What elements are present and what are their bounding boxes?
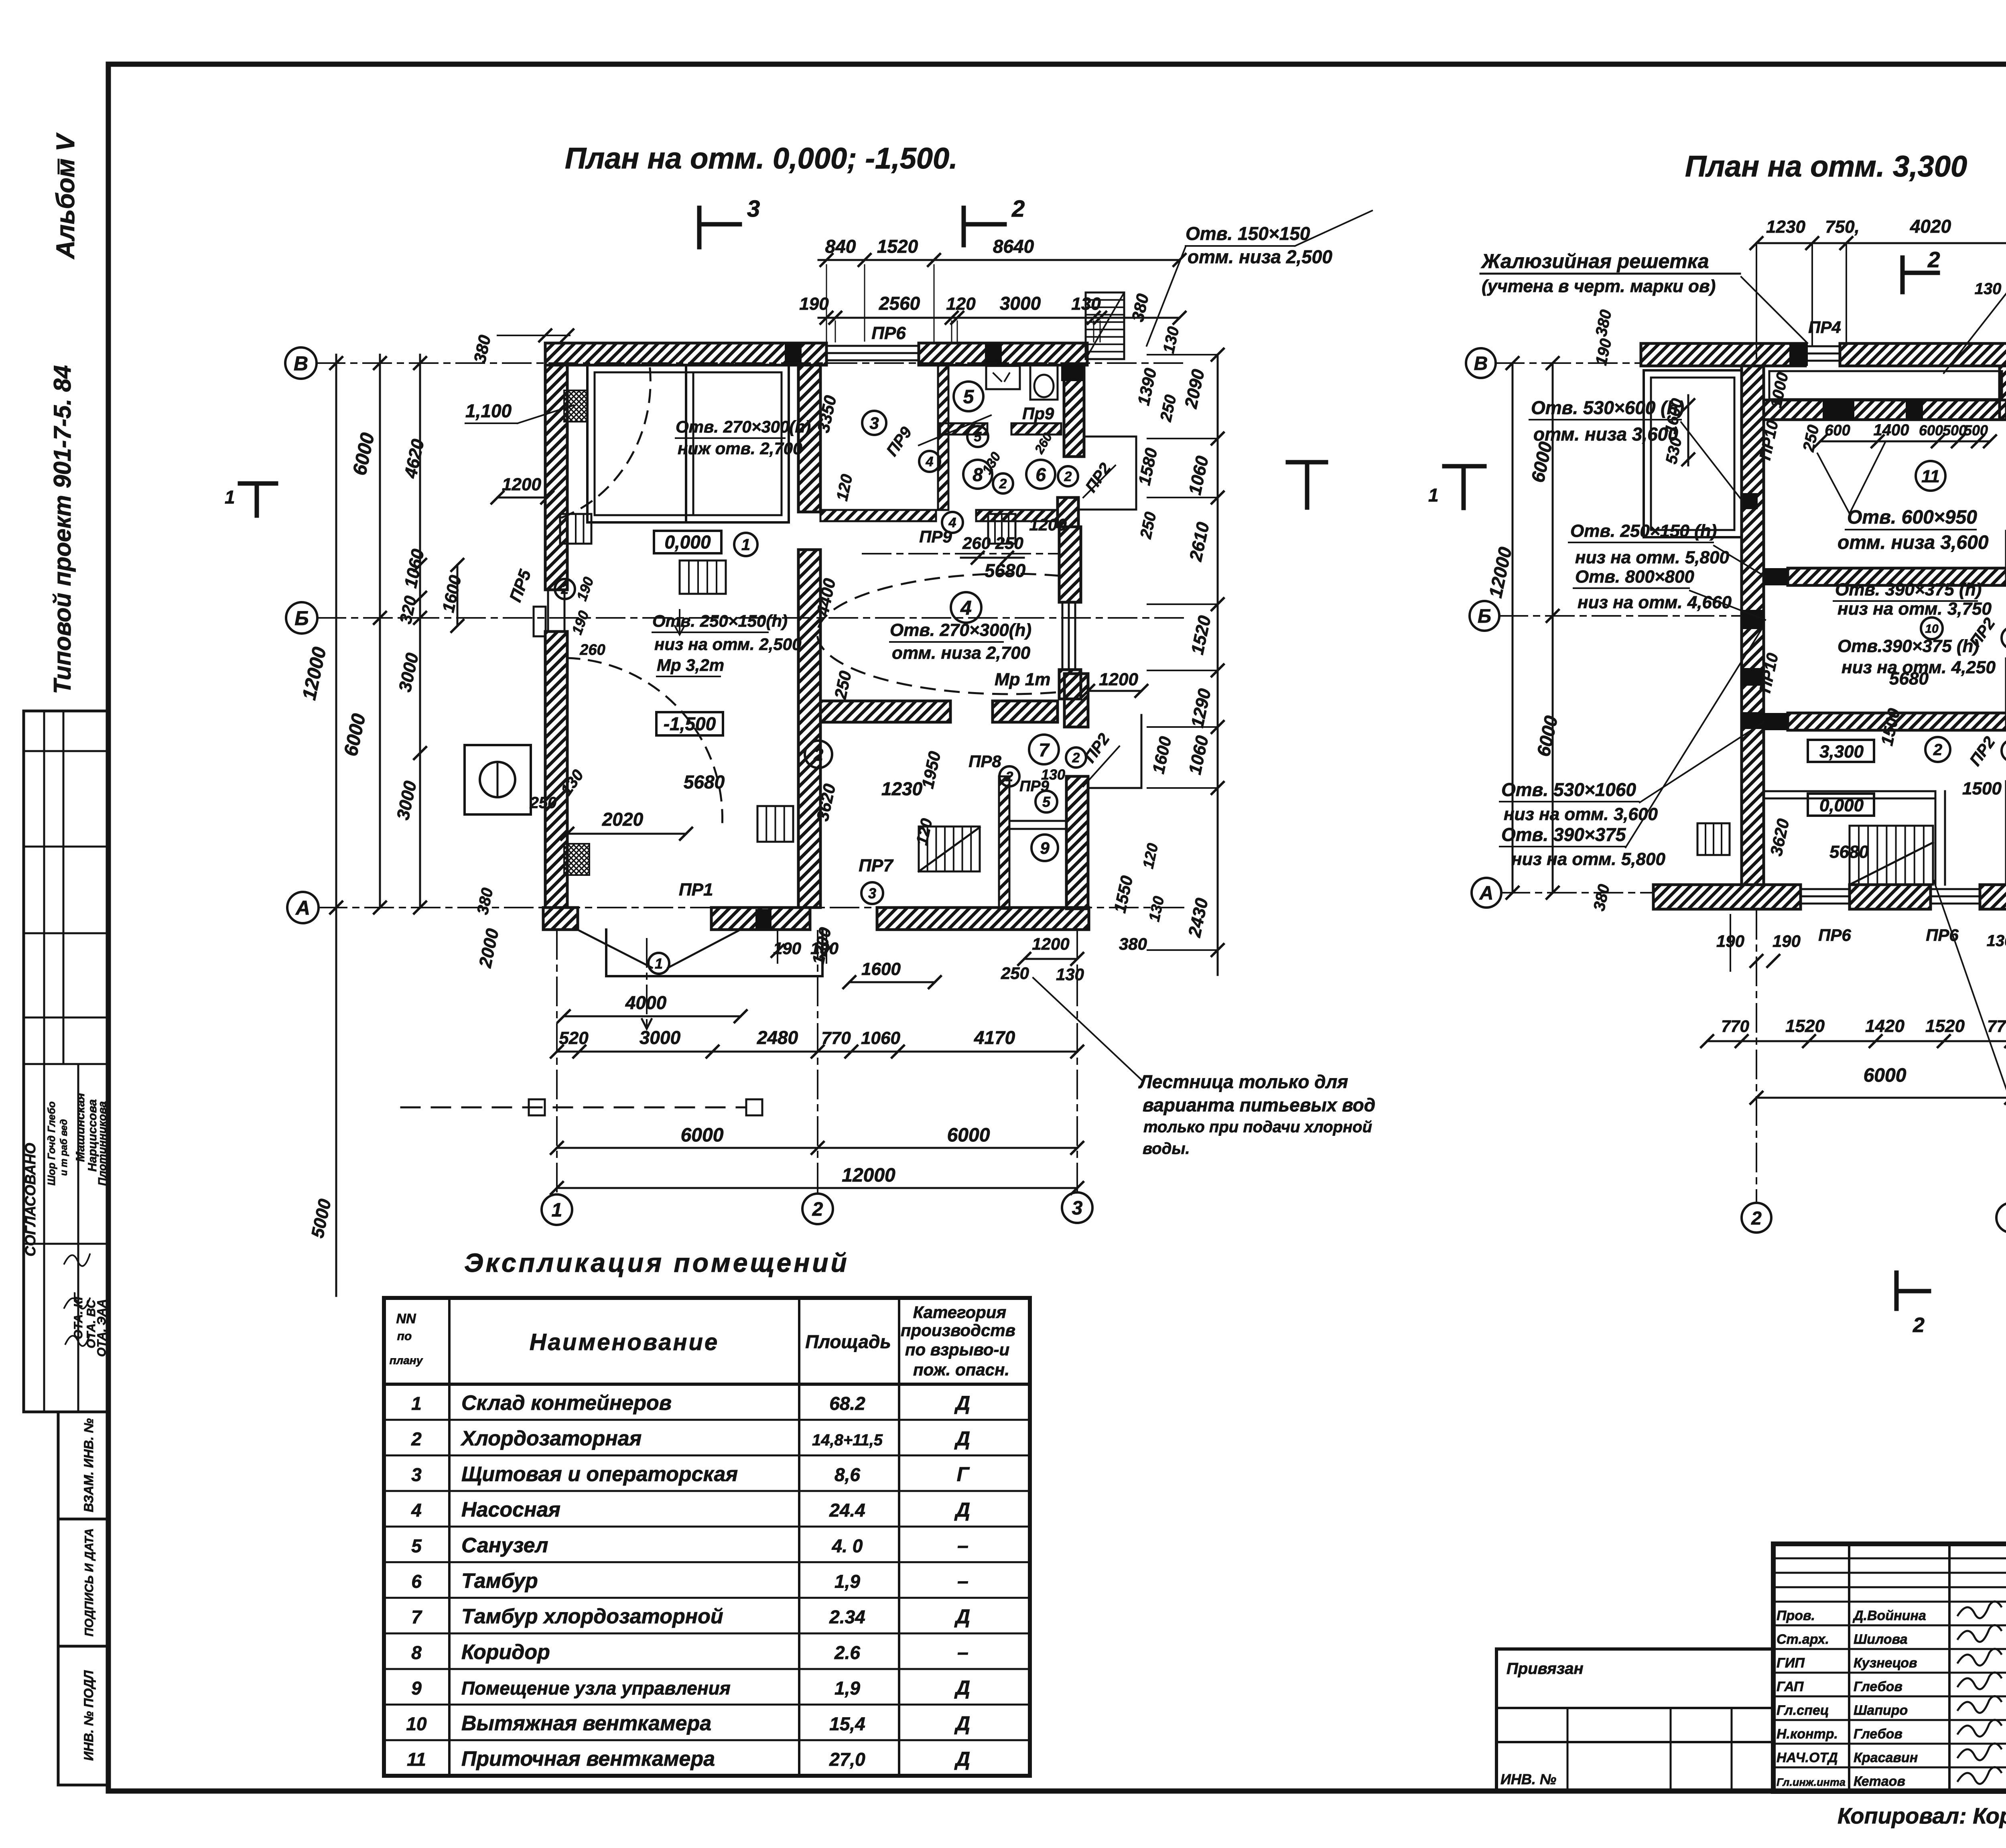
svg-text:5: 5 — [411, 1535, 422, 1556]
svg-text:120: 120 — [833, 473, 856, 502]
svg-text:24.4: 24.4 — [829, 1500, 865, 1521]
svg-text:1420: 1420 — [1865, 1016, 1904, 1036]
svg-text:пож. опасн.: пож. опасн. — [913, 1360, 1009, 1379]
svg-text:8: 8 — [411, 1642, 422, 1663]
svg-text:СОГЛАСОВАНО: СОГЛАСОВАНО — [22, 1143, 39, 1256]
svg-text:5: 5 — [974, 429, 982, 445]
svg-text:1230: 1230 — [1766, 217, 1805, 237]
svg-text:3000: 3000 — [393, 779, 420, 822]
svg-text:2: 2 — [1005, 769, 1013, 784]
svg-text:Лестница только для: Лестница только для — [1138, 1071, 1348, 1092]
svg-text:3: 3 — [411, 1464, 422, 1485]
svg-text:Ст.арх.: Ст.арх. — [1777, 1632, 1829, 1647]
svg-text:840: 840 — [825, 236, 856, 257]
svg-text:5680: 5680 — [684, 772, 725, 792]
svg-text:5680: 5680 — [1829, 842, 1869, 862]
svg-text:2: 2 — [411, 1429, 422, 1450]
svg-text:1200: 1200 — [1099, 670, 1138, 689]
svg-text:120: 120 — [913, 817, 936, 847]
svg-text:2430: 2430 — [1184, 896, 1212, 939]
svg-text:Д: Д — [954, 1712, 970, 1734]
svg-text:6: 6 — [1035, 464, 1046, 485]
svg-text:Г: Г — [957, 1463, 970, 1485]
svg-text:Д: Д — [954, 1677, 970, 1699]
svg-text:ПР8: ПР8 — [968, 752, 1001, 771]
svg-text:6000: 6000 — [340, 712, 370, 758]
svg-text:3000: 3000 — [1000, 293, 1041, 314]
svg-text:низ на отм. 5,800: низ на отм. 5,800 — [1575, 548, 1729, 567]
svg-text:250: 250 — [530, 794, 557, 812]
svg-text:Склад контейнеров: Склад контейнеров — [461, 1391, 672, 1415]
svg-text:Шилова: Шилова — [1854, 1632, 1908, 1647]
svg-text:11: 11 — [407, 1749, 426, 1770]
svg-text:1,100: 1,100 — [465, 400, 512, 421]
svg-text:Отв.390×375 (h): Отв.390×375 (h) — [1837, 636, 1979, 656]
svg-text:2480: 2480 — [757, 1027, 798, 1048]
svg-text:Привязан: Привязан — [1507, 1660, 1584, 1677]
svg-text:380: 380 — [1592, 308, 1615, 338]
svg-text:ИНВ. № ПОДЛ: ИНВ. № ПОДЛ — [81, 1670, 96, 1761]
svg-text:1,9: 1,9 — [834, 1571, 860, 1592]
svg-text:750,: 750, — [1825, 217, 1860, 237]
svg-text:2: 2 — [1064, 469, 1072, 484]
svg-text:1290: 1290 — [1188, 687, 1215, 729]
svg-text:Мр 1т: Мр 1т — [995, 670, 1050, 689]
svg-text:120: 120 — [1140, 842, 1161, 870]
svg-text:2: 2 — [561, 582, 569, 597]
svg-text:1520: 1520 — [1785, 1016, 1825, 1036]
svg-text:Отв. 250×150(h): Отв. 250×150(h) — [652, 611, 788, 630]
svg-text:770: 770 — [821, 1028, 851, 1048]
svg-text:3: 3 — [1072, 1198, 1083, 1219]
svg-text:Глебов: Глебов — [1854, 1726, 1902, 1742]
svg-text:10: 10 — [1925, 622, 1939, 636]
svg-text:Кетаов: Кетаов — [1854, 1774, 1905, 1789]
svg-text:14,8+11,5: 14,8+11,5 — [812, 1432, 883, 1449]
svg-text:5680: 5680 — [1889, 669, 1929, 688]
svg-text:Санузел: Санузел — [461, 1534, 548, 1557]
svg-text:27,0: 27,0 — [829, 1749, 865, 1770]
svg-text:250: 250 — [1137, 510, 1160, 540]
svg-text:2: 2 — [1927, 247, 1940, 272]
svg-text:1: 1 — [225, 487, 235, 508]
svg-text:Красавин: Красавин — [1854, 1750, 1918, 1765]
svg-text:ГИП: ГИП — [1777, 1655, 1805, 1671]
svg-text:3: 3 — [869, 414, 879, 433]
svg-text:1060: 1060 — [1185, 734, 1212, 776]
svg-text:А: А — [295, 897, 310, 919]
svg-text:Н.контр.: Н.контр. — [1777, 1726, 1838, 1742]
svg-text:В: В — [294, 352, 308, 375]
svg-text:ПР9: ПР9 — [883, 423, 916, 459]
svg-text:8,6: 8,6 — [834, 1464, 860, 1485]
svg-text:(учтена в черт. марки ов): (учтена в черт. марки ов) — [1482, 276, 1716, 296]
svg-text:1950: 1950 — [918, 749, 944, 790]
svg-text:9: 9 — [411, 1678, 422, 1699]
svg-text:низ на отм. 2,500: низ на отм. 2,500 — [654, 635, 801, 654]
svg-text:4000: 4000 — [625, 992, 667, 1013]
svg-text:1520: 1520 — [877, 236, 918, 257]
svg-text:1: 1 — [655, 955, 663, 972]
svg-text:Б: Б — [1478, 606, 1491, 627]
svg-text:2: 2 — [813, 745, 824, 765]
svg-text:Наименование: Наименование — [530, 1329, 719, 1355]
svg-text:ПР2: ПР2 — [1966, 733, 1999, 769]
svg-text:130: 130 — [1071, 294, 1101, 314]
svg-text:Отв. 270×300(h): Отв. 270×300(h) — [676, 417, 811, 436]
svg-text:Д: Д — [954, 1499, 970, 1521]
svg-text:NN: NN — [396, 1311, 416, 1326]
svg-text:Приточная венткамера: Приточная венткамера — [461, 1747, 715, 1771]
svg-text:Кузнецов: Кузнецов — [1854, 1655, 1917, 1671]
svg-text:6000: 6000 — [681, 1125, 724, 1146]
svg-text:1200: 1200 — [1032, 934, 1069, 953]
svg-text:130: 130 — [1987, 932, 2006, 950]
svg-text:1060: 1060 — [861, 1028, 900, 1048]
svg-text:2: 2 — [1751, 1208, 1762, 1229]
svg-text:Вытяжная венткамера: Вытяжная венткамера — [461, 1712, 711, 1735]
svg-text:10: 10 — [406, 1713, 427, 1734]
svg-text:260: 260 — [579, 642, 605, 658]
svg-text:4: 4 — [411, 1500, 422, 1521]
svg-text:4620: 4620 — [400, 437, 428, 480]
svg-text:2: 2 — [812, 1199, 823, 1220]
svg-text:130: 130 — [1146, 895, 1167, 923]
svg-text:НАЧ.ОТД: НАЧ.ОТД — [1777, 1750, 1838, 1765]
svg-text:Отв. 530×600 (h): Отв. 530×600 (h) — [1531, 397, 1684, 418]
svg-text:2.34: 2.34 — [829, 1606, 865, 1627]
svg-text:2610: 2610 — [1186, 520, 1213, 563]
svg-text:250: 250 — [830, 669, 855, 701]
svg-text:–: – — [957, 1534, 968, 1557]
svg-text:2: 2 — [1072, 750, 1080, 766]
svg-text:6000: 6000 — [1864, 1065, 1907, 1086]
svg-text:ПОДПИСЬ И ДАТА: ПОДПИСЬ И ДАТА — [83, 1528, 96, 1637]
svg-text:1,9: 1,9 — [834, 1678, 860, 1699]
svg-text:2560: 2560 — [879, 293, 920, 314]
svg-text:3: 3 — [868, 885, 876, 902]
svg-text:4020: 4020 — [1910, 216, 1951, 237]
svg-text:Отв. 250×150 (h): Отв. 250×150 (h) — [1570, 521, 1717, 541]
svg-text:1550: 1550 — [1110, 874, 1136, 914]
svg-text:Типовой проект 901-7-5. 84: Типовой проект 901-7-5. 84 — [49, 365, 76, 694]
svg-text:1390: 1390 — [1134, 366, 1160, 407]
svg-text:190: 190 — [573, 575, 597, 603]
svg-text:Жалюзийная решетка: Жалюзийная решетка — [1480, 250, 1709, 272]
svg-text:Отв. 390×375: Отв. 390×375 — [1501, 824, 1626, 845]
svg-text:190: 190 — [799, 294, 829, 314]
svg-text:Глебов: Глебов — [1854, 1679, 1902, 1694]
svg-text:2.6: 2.6 — [834, 1642, 860, 1663]
svg-text:190: 190 — [569, 608, 592, 636]
svg-text:380: 380 — [470, 333, 495, 365]
svg-text:6000: 6000 — [947, 1125, 990, 1146]
svg-text:Отв. 600×950: Отв. 600×950 — [1847, 507, 1977, 528]
svg-text:3000: 3000 — [640, 1027, 681, 1048]
svg-text:ПР1: ПР1 — [679, 880, 713, 900]
svg-text:производств: производств — [901, 1321, 1015, 1340]
svg-text:Д: Д — [954, 1748, 970, 1770]
svg-text:Гл.спец: Гл.спец — [1777, 1703, 1829, 1718]
svg-text:и т раб вед: и т раб вед — [59, 1119, 69, 1176]
svg-text:2: 2 — [999, 476, 1007, 491]
svg-text:6: 6 — [411, 1571, 422, 1592]
svg-text:Гл.инж.инта: Гл.инж.инта — [1777, 1776, 1846, 1788]
svg-text:190: 190 — [1773, 932, 1801, 950]
svg-text:Отв. 270×300(h): Отв. 270×300(h) — [890, 620, 1031, 640]
svg-text:3000: 3000 — [395, 651, 422, 694]
svg-text:ПР6: ПР6 — [1818, 926, 1851, 944]
svg-text:2: 2 — [1011, 196, 1025, 222]
svg-text:низ на отм. 5,800: низ на отм. 5,800 — [1511, 849, 1665, 869]
svg-text:воды.: воды. — [1143, 1140, 1190, 1158]
svg-text:Д.Войнина: Д.Войнина — [1852, 1608, 1926, 1623]
svg-text:1500: 1500 — [1962, 779, 2002, 798]
svg-text:отм. низа 2,700: отм. низа 2,700 — [892, 643, 1031, 663]
svg-text:11: 11 — [1921, 467, 1940, 486]
svg-text:1: 1 — [411, 1393, 422, 1414]
svg-text:1600: 1600 — [861, 959, 901, 979]
svg-text:9: 9 — [1040, 839, 1050, 857]
svg-text:низ на отм. 3,600: низ на отм. 3,600 — [1504, 804, 1658, 824]
svg-text:2: 2 — [1913, 1314, 1925, 1337]
svg-text:Отв. 800×800: Отв. 800×800 — [1575, 567, 1694, 587]
svg-text:5000: 5000 — [308, 1197, 335, 1240]
svg-text:130: 130 — [1041, 766, 1065, 783]
svg-text:7: 7 — [1039, 739, 1050, 760]
svg-text:2000: 2000 — [475, 927, 503, 970]
svg-text:1060: 1060 — [401, 547, 428, 590]
svg-text:1520: 1520 — [1188, 614, 1215, 656]
svg-text:5680: 5680 — [985, 560, 1026, 581]
svg-text:Отв. 390×375 (h): Отв. 390×375 (h) — [1835, 580, 1982, 599]
svg-text:0,000: 0,000 — [664, 532, 711, 552]
svg-text:ГАП: ГАП — [1777, 1679, 1804, 1694]
svg-text:Машинская: Машинская — [74, 1093, 87, 1162]
svg-text:ВЗАМ. ИНВ. №: ВЗАМ. ИНВ. № — [81, 1418, 96, 1512]
svg-text:Копировал: Корецкая: Копировал: Корецкая — [1837, 1803, 2006, 1828]
svg-text:варианта питьевых вод: варианта питьевых вод — [1143, 1095, 1375, 1115]
svg-text:ниж отв. 2,700: ниж отв. 2,700 — [678, 439, 802, 458]
svg-text:380: 380 — [1119, 934, 1147, 953]
svg-text:1520: 1520 — [1925, 1016, 1965, 1036]
svg-text:Пр9: Пр9 — [1022, 404, 1054, 423]
svg-text:Б: Б — [294, 607, 309, 630]
svg-text:-1,500: -1,500 — [664, 713, 716, 734]
svg-text:Д: Д — [954, 1392, 970, 1414]
svg-text:А: А — [1479, 883, 1494, 904]
svg-text:1200: 1200 — [502, 475, 541, 494]
svg-text:2090: 2090 — [1181, 368, 1208, 410]
svg-text:380: 380 — [1590, 883, 1613, 912]
svg-text:380: 380 — [474, 886, 497, 916]
svg-text:7: 7 — [411, 1606, 422, 1627]
svg-text:Экспликация помещений: Экспликация помещений — [464, 1248, 849, 1277]
svg-text:130: 130 — [1056, 965, 1084, 984]
svg-text:120: 120 — [946, 294, 976, 314]
svg-text:План на отм. 0,000; -1,500.: План на отм. 0,000; -1,500. — [565, 142, 958, 175]
svg-text:4: 4 — [960, 597, 972, 619]
svg-text:250: 250 — [1001, 964, 1029, 983]
svg-text:12000: 12000 — [298, 645, 331, 702]
svg-text:только при подачи хлорной: только при подачи хлорной — [1143, 1118, 1372, 1136]
svg-text:4: 4 — [926, 454, 934, 469]
svg-text:отм. низа 3,600: отм. низа 3,600 — [1837, 532, 1989, 553]
svg-text:низ на отм. 3,750: низ на отм. 3,750 — [1837, 599, 1992, 619]
svg-text:770: 770 — [1987, 1017, 2006, 1036]
svg-text:12000: 12000 — [842, 1165, 895, 1186]
svg-text:Шор Гочд Глебо: Шор Гочд Глебо — [45, 1101, 57, 1186]
svg-text:Помещение узла управления: Помещение узла управления — [461, 1678, 731, 1699]
svg-text:ОТА. ЭАА: ОТА. ЭАА — [95, 1299, 108, 1357]
svg-text:Пров.: Пров. — [1777, 1608, 1815, 1623]
svg-text:низ на отм. 4,660: низ на отм. 4,660 — [1578, 593, 1732, 612]
svg-text:Отв. 530×1060: Отв. 530×1060 — [1501, 779, 1636, 800]
svg-text:4. 0: 4. 0 — [832, 1535, 863, 1556]
svg-text:отм. низа 3,600: отм. низа 3,600 — [1533, 424, 1678, 445]
svg-text:1600: 1600 — [439, 573, 465, 614]
svg-text:отм. низа 2,500: отм. низа 2,500 — [1188, 246, 1332, 267]
svg-text:5: 5 — [1042, 794, 1051, 810]
svg-text:2: 2 — [1933, 741, 1942, 759]
svg-text:Д: Д — [954, 1605, 970, 1628]
svg-text:Щитовая и операторская: Щитовая и операторская — [461, 1462, 738, 1486]
svg-text:ПР5: ПР5 — [506, 567, 534, 604]
svg-text:Тамбур: Тамбур — [461, 1570, 538, 1593]
svg-text:ПР7: ПР7 — [859, 856, 894, 875]
svg-text:Д: Д — [954, 1428, 970, 1450]
svg-text:3: 3 — [747, 196, 760, 222]
svg-text:ПР9: ПР9 — [919, 527, 952, 546]
svg-text:Тамбур хлордозаторной: Тамбур хлордозаторной — [461, 1605, 723, 1628]
svg-text:770: 770 — [1721, 1017, 1749, 1036]
svg-text:68.2: 68.2 — [829, 1393, 865, 1414]
svg-text:1200: 1200 — [1029, 515, 1066, 534]
svg-text:Хлордозаторная: Хлордозаторная — [460, 1427, 642, 1450]
svg-text:ПР4: ПР4 — [1808, 318, 1841, 337]
svg-text:15,4: 15,4 — [829, 1713, 865, 1734]
svg-text:–: – — [957, 1641, 968, 1663]
svg-text:2020: 2020 — [602, 809, 644, 830]
svg-text:12000: 12000 — [1485, 545, 1516, 599]
svg-text:1230: 1230 — [881, 778, 923, 799]
svg-text:1400: 1400 — [1874, 421, 1909, 439]
svg-text:Насосная: Насосная — [461, 1498, 560, 1521]
svg-text:План на отм. 3,300: План на отм. 3,300 — [1685, 150, 1967, 183]
svg-text:3,300: 3,300 — [1819, 742, 1864, 762]
svg-text:600: 600 — [1825, 422, 1850, 439]
svg-text:250: 250 — [1157, 393, 1180, 423]
svg-text:Категория: Категория — [913, 1303, 1006, 1322]
svg-text:ПР2: ПР2 — [1082, 460, 1115, 496]
svg-text:Мр 3,2т: Мр 3,2т — [657, 656, 724, 674]
svg-text:Отв. 150×150: Отв. 150×150 — [1186, 223, 1310, 244]
svg-text:–: – — [957, 1570, 968, 1592]
svg-text:Альбом V: Альбом V — [51, 132, 80, 260]
svg-text:1: 1 — [552, 1200, 562, 1221]
svg-text:плану: плану — [390, 1354, 423, 1367]
svg-text:В: В — [1474, 353, 1488, 374]
svg-text:1: 1 — [741, 536, 750, 554]
svg-text:6000: 6000 — [1533, 714, 1561, 758]
svg-text:6000: 6000 — [349, 431, 379, 477]
svg-text:Шапиро: Шапиро — [1854, 1703, 1908, 1718]
svg-text:Площадь: Площадь — [805, 1331, 891, 1352]
svg-text:1600: 1600 — [1149, 735, 1175, 775]
svg-text:1060: 1060 — [1185, 454, 1212, 497]
svg-text:Коридор: Коридор — [461, 1641, 550, 1664]
svg-text:250: 250 — [1800, 423, 1823, 453]
svg-text:ПР6: ПР6 — [1926, 926, 1959, 944]
svg-text:130: 130 — [1975, 280, 2002, 298]
svg-text:1: 1 — [1428, 485, 1439, 506]
svg-text:4170: 4170 — [974, 1027, 1015, 1048]
svg-text:8640: 8640 — [993, 236, 1034, 257]
svg-text:1580: 1580 — [1135, 446, 1161, 487]
svg-text:по взрыво-и: по взрыво-и — [905, 1340, 1009, 1359]
svg-text:ИНВ. №: ИНВ. № — [1500, 1771, 1556, 1787]
svg-text:5: 5 — [963, 386, 975, 408]
svg-text:по: по — [397, 1330, 412, 1343]
svg-text:130: 130 — [1160, 325, 1183, 355]
svg-text:600: 600 — [1919, 422, 1943, 439]
svg-text:3620: 3620 — [1766, 817, 1793, 857]
svg-text:ПР6: ПР6 — [871, 323, 906, 343]
svg-text:Плотинникова: Плотинникова — [96, 1101, 108, 1186]
